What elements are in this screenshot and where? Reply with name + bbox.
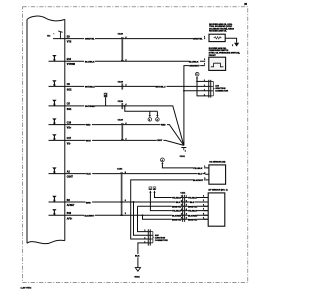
svg-text:9: 9: [125, 172, 126, 174]
svg-text:1-28 VTEC: 1-28 VTEC: [21, 288, 32, 290]
svg-text:1: 1: [204, 59, 205, 61]
svg-text:YEL/BLK: YEL/BLK: [172, 211, 181, 213]
svg-text:BLK/RED: BLK/RED: [172, 215, 182, 217]
svg-text:1: 1: [203, 196, 204, 198]
svg-text:BRN/YEL: BRN/YEL: [188, 206, 198, 208]
svg-text:6: 6: [203, 217, 204, 219]
terminal R3: [52, 80, 56, 86]
terminal R9: [52, 209, 56, 215]
svg-text:VS-: VS-: [67, 143, 71, 145]
node circle 3: [195, 72, 199, 78]
C111 pin numbers left: [181, 196, 182, 220]
svg-text:O2 SENSOR (S2): O2 SENSOR (S2): [209, 161, 225, 163]
svg-text:1: 1: [185, 150, 186, 152]
svg-text:3: 3: [203, 204, 204, 206]
svg-text:YEL/BLK: YEL/BLK: [172, 198, 181, 200]
connector C111: [180, 193, 186, 222]
svg-text:4: 4: [203, 208, 204, 211]
svg-text:BLK: BLK: [135, 256, 140, 258]
svg-text:BLU/BLK: BLU/BLK: [85, 61, 95, 63]
svg-text:WHT/BLU: WHT/BLU: [155, 87, 166, 89]
wire R4 branch: [124, 105, 158, 111]
svg-text:6: 6: [186, 200, 187, 202]
connector C129 R3: [118, 81, 128, 89]
svg-text:VTPSW: VTPSW: [67, 64, 76, 66]
svg-text:YEL/BLK: YEL/BLK: [188, 198, 197, 200]
svg-text:7: 7: [181, 196, 182, 198]
wire label R5a: [86, 123, 92, 127]
svg-text:AFSHT: AFSHT: [67, 204, 75, 207]
page border: [23, 7, 248, 283]
svg-text:1: 1: [204, 166, 205, 168]
svg-text:CONNECTOR: CONNECTOR: [215, 91, 228, 93]
svg-text:G101: G101: [134, 276, 140, 278]
junction R8/ground drop: [133, 201, 135, 203]
svg-text:BLK/WHT: BLK/WHT: [84, 216, 95, 218]
wire label R5b: [161, 123, 167, 127]
svg-text:C17: C17: [67, 138, 72, 140]
svg-text:C129: C129: [118, 101, 124, 103]
svg-text:BLU: BLU: [198, 174, 203, 176]
wire R4 SG1: [49, 106, 184, 145]
svg-text:C134: C134: [117, 167, 123, 170]
svg-text:2: 2: [203, 200, 204, 202]
wire to ground G101: [138, 243, 148, 268]
svg-text:YEL/BLK: YEL/BLK: [193, 168, 203, 170]
junction R9 row6 branch: [142, 214, 144, 216]
wire R8 ground branch: [134, 202, 149, 235]
svg-text:2: 2: [186, 218, 187, 220]
svg-text:BRN: BRN: [86, 202, 91, 204]
svg-text:4: 4: [186, 208, 187, 211]
wire label R7a: [86, 172, 92, 176]
wire AFS row 3: [138, 206, 209, 231]
svg-text:BRN/YEL: BRN/YEL: [172, 206, 182, 208]
rocker arm oil pressure switch S1: [204, 45, 240, 70]
svg-text:1: 1: [144, 238, 145, 240]
wire label R4a: [84, 104, 96, 108]
svg-text:VTS: VTS: [67, 42, 72, 44]
svg-text:RED: RED: [86, 125, 91, 127]
svg-text:B10: B10: [67, 213, 72, 215]
wire label R8a: [86, 201, 93, 205]
terminal R7: [52, 167, 56, 173]
junction connector A23: [183, 77, 229, 97]
svg-text:C129: C129: [118, 81, 124, 83]
svg-text:E14: E14: [67, 58, 72, 61]
svg-text:7: 7: [186, 196, 187, 198]
svg-text:1: 1: [204, 89, 205, 91]
PCM body (torn box): [27, 16, 65, 244]
wire label GRN/WHT: [189, 64, 200, 68]
wire label R6a: [86, 139, 93, 143]
svg-text:1: 1: [204, 80, 205, 82]
wire R1 VTS: [53, 38, 205, 40]
wire label R3b: [155, 85, 166, 89]
svg-text:RED: RED: [161, 125, 166, 127]
wire label YEL/BLK upper: [193, 166, 204, 170]
junction connector A16: [144, 229, 168, 245]
svg-text:5: 5: [186, 205, 187, 207]
ground G101: [134, 268, 140, 279]
svg-text:6: 6: [181, 200, 182, 202]
connector C129 R1-R2: [118, 34, 128, 62]
svg-text:1: 1: [144, 230, 145, 232]
wire label R1b: [193, 37, 204, 41]
svg-text:CONNECTOR: CONNECTOR: [155, 240, 168, 242]
svg-text:VS+: VS+: [67, 128, 72, 130]
svg-text:2: 2: [204, 172, 205, 174]
svg-text:SG2: SG2: [67, 89, 72, 91]
svg-text:BLK/RED: BLK/RED: [188, 215, 198, 217]
svg-text:WHT: WHT: [157, 140, 163, 142]
node square 2 lower: [153, 187, 208, 198]
svg-text:A/F SENSOR (NO. 1): A/F SENSOR (NO. 1): [208, 188, 228, 191]
svg-text:BLK: BLK: [86, 174, 91, 176]
svg-text:GRN/YEL: GRN/YEL: [85, 39, 95, 41]
svg-text:4: 4: [181, 208, 182, 211]
svg-text:GRN/WHT: GRN/WHT: [189, 66, 200, 68]
svg-text:BLK: BLK: [190, 202, 195, 204]
svg-text:SG1: SG1: [67, 109, 72, 111]
svg-text:BLK/WHT: BLK/WHT: [193, 180, 204, 182]
connector C134 (long): [117, 167, 126, 216]
wire label BLK: [135, 254, 142, 258]
wire label R2a: [84, 60, 95, 64]
wire label BLK/WHT upper: [193, 178, 204, 182]
wire solenoid to ground: [225, 38, 236, 43]
terminal R5: [52, 118, 56, 124]
wire label R1a: [84, 37, 95, 41]
svg-text:WHT/RED: WHT/RED: [85, 106, 96, 108]
svg-text:GRN/YEL: GRN/YEL: [193, 39, 203, 41]
wire circle4 to O2 sensor: [162, 163, 205, 168]
wire R3 SG2: [49, 85, 209, 87]
wire labels left of C111: [172, 196, 182, 222]
A/F sensor S1: [203, 188, 228, 226]
svg-text:1: 1: [204, 37, 205, 39]
wire R8 AFSHT: [49, 201, 209, 203]
node square 1 lower: [149, 187, 208, 211]
svg-text:C129: C129: [118, 34, 124, 36]
svg-text:5: 5: [203, 213, 204, 215]
node R4 drop 2: [156, 111, 160, 121]
wire R6 VS-: [49, 140, 184, 145]
wire R2 VTPSW: [49, 60, 206, 62]
terminal R4: [52, 100, 56, 106]
wire label R6b: [157, 138, 164, 142]
svg-text:WHT: WHT: [86, 141, 92, 143]
terminal R8: [52, 196, 56, 202]
wire label R9a: [84, 214, 95, 218]
C111 pin numbers right: [186, 196, 187, 220]
wire label R3a: [84, 85, 95, 89]
svg-text:BLU/BLK: BLU/BLK: [189, 61, 199, 63]
ground (solenoid): [234, 43, 239, 47]
wire labels right of C111: [188, 196, 198, 222]
branch connector above R4: [104, 93, 108, 106]
svg-text:NC: NC: [47, 36, 51, 38]
node convergence C101: [180, 148, 187, 159]
svg-text:C101: C101: [180, 156, 186, 158]
connector C129 R5-R6: [118, 120, 128, 141]
svg-text:WHT/BLU: WHT/BLU: [85, 87, 96, 89]
connector C129 R4: [118, 101, 128, 109]
terminal R1: [58, 31, 62, 39]
svg-text:BLK: BLK: [176, 202, 181, 204]
svg-text:ROCKER ARM OIL: ROCKER ARM OIL: [209, 30, 227, 33]
node R4 drop 1: [148, 111, 152, 121]
wire switch pin2 down: [184, 66, 205, 146]
terminal R2: [52, 55, 56, 61]
terminal R6: [52, 134, 56, 140]
wire R5 VS+: [49, 125, 184, 146]
O2 sensor S2: [204, 161, 225, 184]
node circle 4: [161, 158, 165, 164]
wire AFS row 6: [143, 215, 209, 219]
rocker arm oil control solenoid U1: [204, 23, 234, 42]
svg-text:1: 1: [204, 85, 205, 87]
wire label R7b: [198, 172, 203, 176]
svg-text:O2HT: O2HT: [67, 177, 74, 179]
svg-text:AFS-: AFS-: [67, 217, 73, 220]
svg-text:YEL/BLK: YEL/BLK: [188, 211, 197, 213]
svg-text:BRN/YEL: BRN/YEL: [172, 219, 182, 221]
svg-text:BRN/YEL: BRN/YEL: [188, 219, 198, 221]
wire R7 O2HT: [49, 173, 206, 175]
svg-text:C129: C129: [118, 120, 124, 122]
svg-text:C111: C111: [180, 193, 186, 195]
wire R9 AFS-: [49, 214, 209, 216]
svg-text:3: 3: [186, 214, 187, 216]
wire O2 sensor ground: [131, 180, 206, 239]
svg-text:1: 1: [204, 94, 205, 96]
svg-text:C18: C18: [67, 122, 72, 124]
wire label R2b: [189, 60, 200, 64]
